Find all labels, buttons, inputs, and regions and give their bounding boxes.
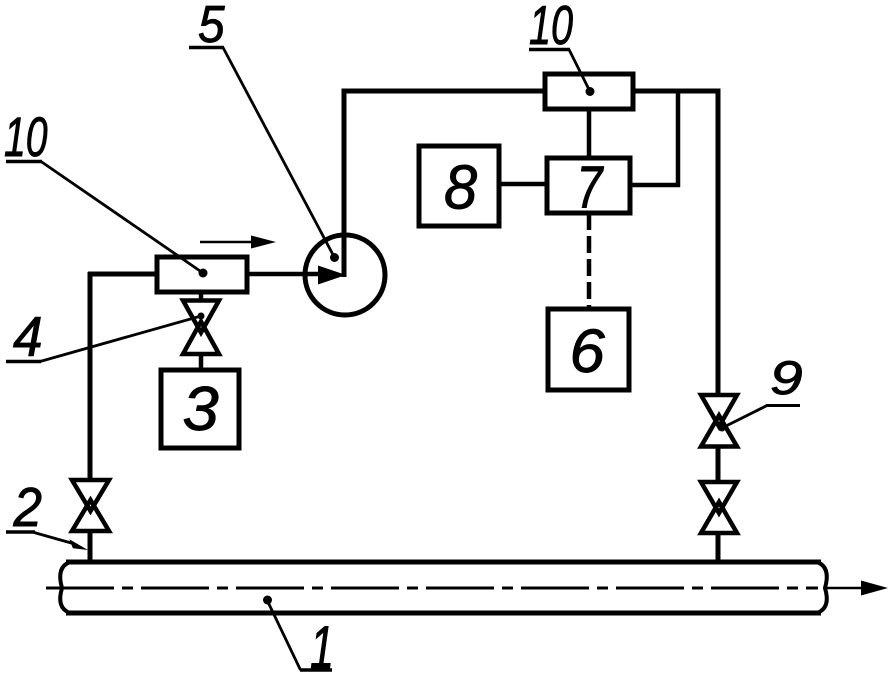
leader of label 10 top (569, 50, 590, 92)
wire meter 10 top to box 7 (587, 108, 592, 159)
meter 10 (top) (545, 74, 633, 109)
valve 9 (upper) (701, 395, 737, 447)
underline of label 9 (766, 404, 800, 407)
leader of label 1 (268, 601, 301, 670)
leader dot of label 5 (330, 253, 339, 262)
underline of label 10 top (529, 48, 570, 52)
valve 4 (183, 301, 219, 355)
svg-text:4: 4 (13, 305, 43, 368)
pipe 1 bottom wall (66, 611, 821, 616)
underline of label 1 (300, 668, 332, 672)
leader arrowhead of label 2 (69, 539, 88, 550)
stem meter to valve4 (199, 291, 204, 301)
flow direction arrow above meter (200, 241, 253, 244)
leader dot of label 10 (top) (586, 87, 595, 96)
underline of label 5 (189, 46, 224, 50)
stem valve4 to box3 (199, 353, 204, 371)
wire box8 to box7 (498, 182, 548, 187)
pipe centerline dash-dot (46, 587, 818, 590)
wire riser to meter 10 left (88, 272, 158, 277)
leader dot of label 10 (left) (199, 269, 208, 278)
wire meter to pump circle with arrowhead (247, 272, 322, 277)
flow out line (824, 587, 864, 590)
wire meter 10 top to right corner (632, 89, 721, 94)
box 7 (547, 158, 630, 213)
pump/ejector circle 5 (305, 235, 385, 315)
leader of label 4 (40, 316, 201, 362)
leader dot of label 1 (263, 596, 272, 605)
underline of label 4 (6, 360, 41, 364)
leader of label 5 (223, 48, 335, 258)
leader of label 2 (34, 533, 73, 544)
svg-text:8: 8 (444, 152, 477, 221)
meter 10 (left, on sample line) (157, 257, 247, 292)
valve (lower, unlabeled) (701, 482, 737, 533)
leader of label 9 (722, 406, 767, 429)
svg-text:1: 1 (310, 615, 334, 677)
pipe 1 top wall (66, 560, 821, 565)
wire top horizontal to meter 10 (top) (342, 89, 547, 94)
wire circle up to top line (342, 89, 347, 277)
wire left riser lower (valve2 to pipe) (88, 531, 93, 564)
wire left riser upper (rect10L to valve2) (88, 272, 93, 481)
wire inner branch horizontal to box7 (629, 183, 680, 188)
underline of label 10 TL (6, 160, 42, 164)
dashed wire box7 to box6 (587, 213, 592, 310)
wire right riser upper (716, 89, 721, 396)
box 8 (419, 146, 499, 226)
valve 2 (72, 480, 109, 531)
box 3 (161, 370, 239, 448)
leader dot of label 4 (198, 313, 205, 320)
svg-text:6: 6 (570, 318, 606, 386)
flow out arrowhead (861, 581, 888, 596)
wire inner branch vertical (676, 89, 681, 187)
svg-text:10: 10 (4, 106, 48, 169)
underline of label 2 (6, 530, 35, 534)
pipe right break end (817, 562, 827, 613)
leader dot of label 9 (719, 425, 726, 432)
wire lower valve to pipe (716, 532, 721, 564)
box 6 (548, 309, 629, 390)
leader of label 10 TL (41, 162, 203, 274)
pipe left break end (60, 562, 70, 613)
svg-text:3: 3 (183, 374, 219, 443)
svg-text:2: 2 (13, 477, 42, 538)
svg-text:5: 5 (198, 0, 225, 53)
svg-text:7: 7 (577, 155, 605, 220)
svg-text:9: 9 (770, 352, 803, 404)
wire between right valves (716, 446, 721, 483)
